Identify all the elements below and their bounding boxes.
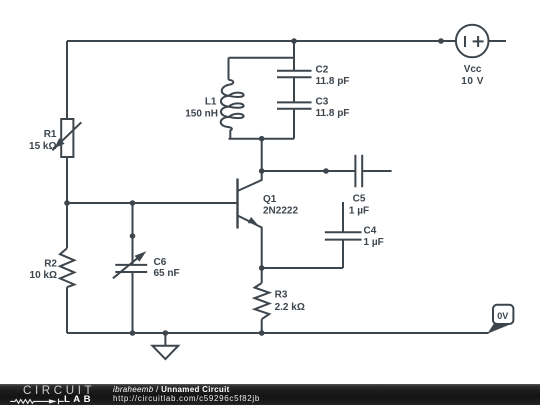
svg-text:R3: R3 — [275, 290, 288, 301]
svg-text:11.8 pF: 11.8 pF — [316, 76, 350, 87]
svg-text:C6: C6 — [154, 257, 167, 268]
svg-text:Q1: Q1 — [263, 194, 277, 205]
svg-text:R1: R1 — [44, 129, 57, 140]
svg-text:65 nF: 65 nF — [154, 268, 180, 279]
svg-text:1 µF: 1 µF — [364, 237, 384, 248]
svg-text:Vcc: Vcc — [464, 64, 482, 75]
svg-text:15 kΩ: 15 kΩ — [29, 141, 56, 152]
svg-text:L1: L1 — [205, 97, 217, 108]
svg-text:2.2 kΩ: 2.2 kΩ — [275, 302, 305, 313]
svg-text:2N2222: 2N2222 — [263, 206, 298, 217]
svg-text:0V: 0V — [497, 311, 508, 321]
svg-text:10 V: 10 V — [461, 76, 484, 87]
svg-text:C3: C3 — [316, 96, 329, 107]
svg-text:C4: C4 — [364, 225, 377, 236]
svg-text:150 nH: 150 nH — [185, 108, 218, 119]
svg-text:C2: C2 — [316, 64, 329, 75]
svg-text:R2: R2 — [44, 258, 57, 269]
svg-text:1 µF: 1 µF — [349, 205, 369, 216]
svg-text:10 kΩ: 10 kΩ — [30, 270, 57, 281]
svg-text:11.8 pF: 11.8 pF — [316, 108, 350, 119]
svg-text:C5: C5 — [353, 194, 366, 205]
